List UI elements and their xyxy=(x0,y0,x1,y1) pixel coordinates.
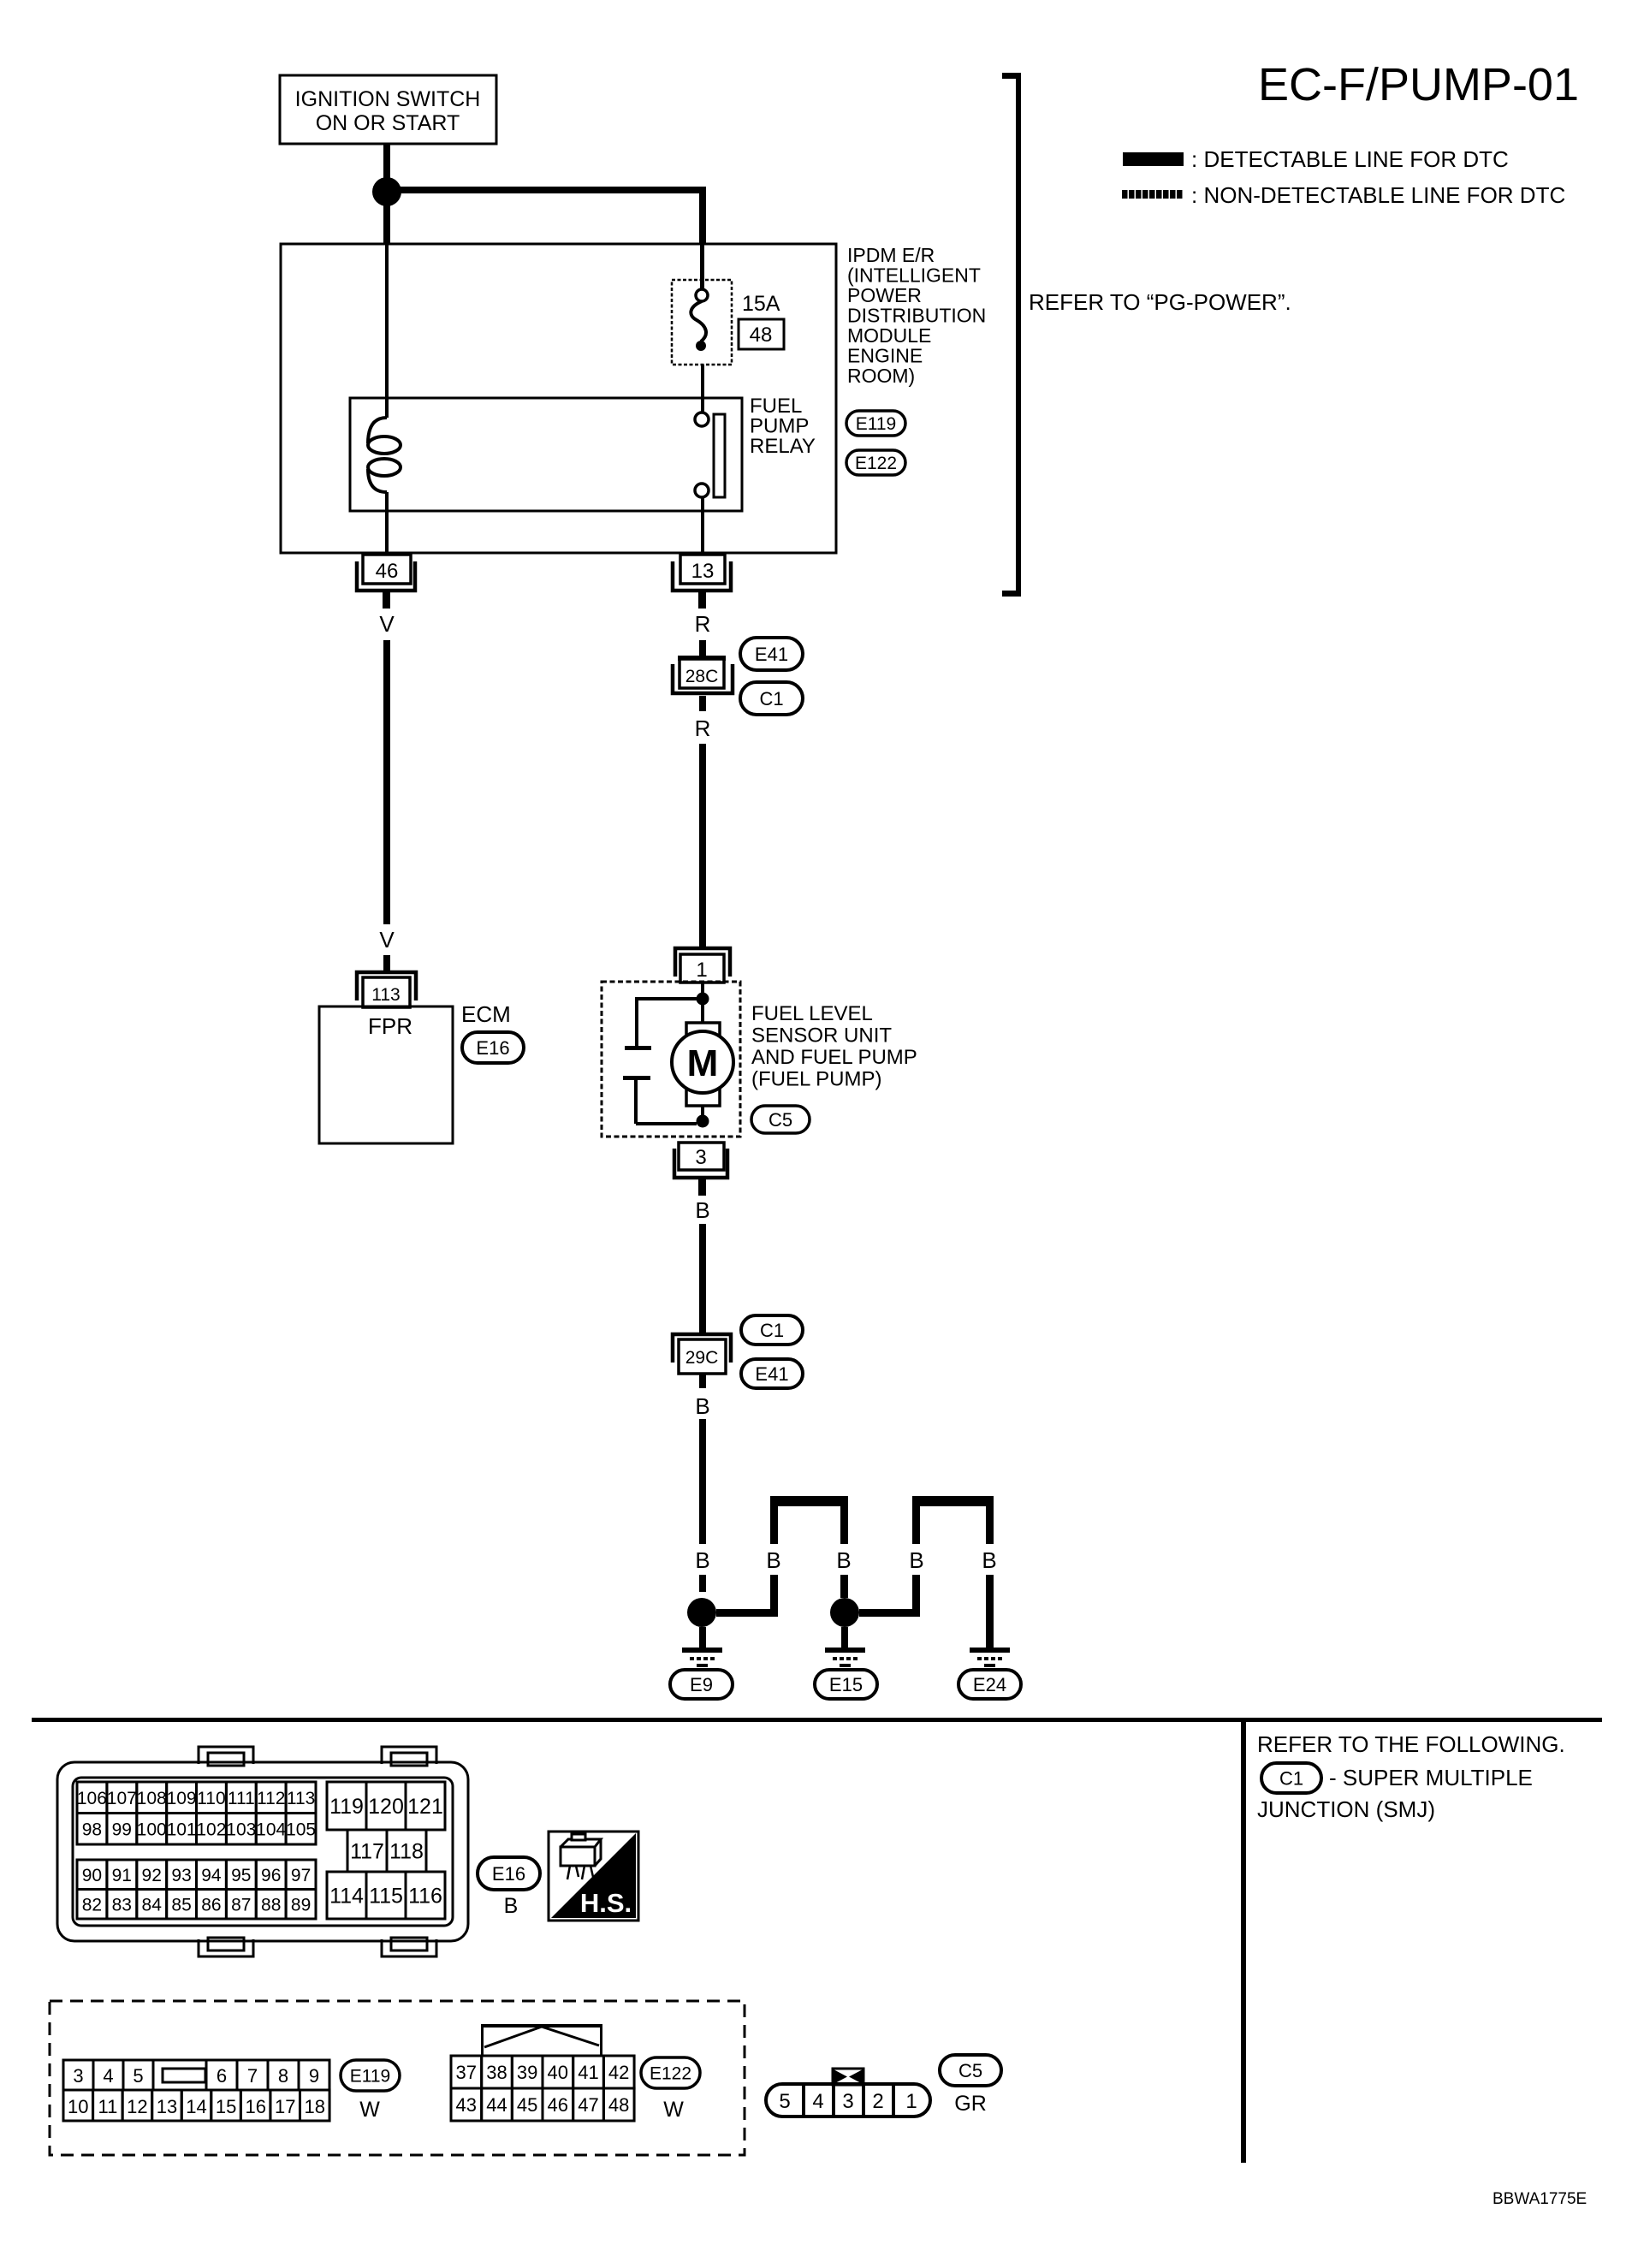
svg-text:18: 18 xyxy=(305,2096,325,2117)
svg-text:114: 114 xyxy=(329,1885,364,1909)
svg-text:103: 103 xyxy=(226,1820,256,1839)
relay coil xyxy=(368,418,401,492)
svg-text:GR: GR xyxy=(954,2092,987,2116)
svg-text:119: 119 xyxy=(329,1795,364,1819)
svg-text:B: B xyxy=(695,1547,709,1573)
svg-text:13: 13 xyxy=(691,560,715,583)
E16 pin grid right pins 117-118 xyxy=(347,1830,426,1872)
svg-text:E122: E122 xyxy=(855,454,897,473)
wire junction horizontal to right branch xyxy=(387,187,706,193)
svg-text:REFER TO “PG-POWER”.: REFER TO “PG-POWER”. xyxy=(1029,289,1291,315)
connector E122 oval xyxy=(846,450,905,475)
connector E15 oval xyxy=(815,1670,877,1699)
svg-text:E119: E119 xyxy=(350,2067,391,2087)
motor frame xyxy=(686,1023,720,1106)
svg-text:: DETECTABLE LINE FOR DTC: : DETECTABLE LINE FOR DTC xyxy=(1191,146,1509,172)
ignition switch box xyxy=(280,75,496,144)
svg-text:5: 5 xyxy=(779,2090,790,2113)
svg-text:86: 86 xyxy=(201,1895,221,1915)
svg-text:104: 104 xyxy=(256,1820,286,1839)
svg-text:C5: C5 xyxy=(958,2060,982,2081)
svg-text:1: 1 xyxy=(696,959,707,982)
svg-text:JUNCTION (SMJ): JUNCTION (SMJ) xyxy=(1257,1796,1435,1822)
svg-text:5: 5 xyxy=(133,2065,143,2087)
connector E41 oval xyxy=(740,638,803,670)
svg-text:110: 110 xyxy=(197,1789,225,1808)
svg-text:IPDM E/R: IPDM E/R xyxy=(847,244,935,266)
svg-text:15: 15 xyxy=(216,2096,236,2117)
wire loop1 right stub xyxy=(840,1575,848,1598)
svg-text:13: 13 xyxy=(157,2096,177,2117)
fuse element xyxy=(691,289,708,351)
svg-text:7: 7 xyxy=(247,2065,258,2087)
svg-text:11: 11 xyxy=(98,2096,117,2117)
svg-text:C1: C1 xyxy=(1279,1767,1303,1789)
relay contact bar xyxy=(714,414,725,497)
wire pin 46 stub xyxy=(383,592,390,609)
svg-text:MODULE: MODULE xyxy=(847,324,931,347)
svg-text:42: 42 xyxy=(608,2062,629,2083)
connector E122 oval label xyxy=(641,2057,700,2088)
svg-text:39: 39 xyxy=(517,2062,537,2083)
svg-text:W: W xyxy=(359,2098,380,2122)
svg-text:E16: E16 xyxy=(476,1037,509,1059)
wire node to motor xyxy=(701,1005,704,1023)
svg-text:44: 44 xyxy=(486,2094,507,2116)
connector E119 oval xyxy=(846,411,905,436)
svg-text:3: 3 xyxy=(695,1146,706,1169)
svg-text:100: 100 xyxy=(137,1820,167,1839)
svg-text:29C: 29C xyxy=(685,1348,719,1368)
connector E41 oval mid xyxy=(741,1359,803,1388)
E16 top tab left xyxy=(199,1747,253,1766)
connector E9 oval xyxy=(670,1670,733,1699)
svg-text:118: 118 xyxy=(389,1840,424,1864)
svg-text:116: 116 xyxy=(408,1885,442,1909)
svg-text:C1: C1 xyxy=(759,688,783,709)
svg-text:ENGINE: ENGINE xyxy=(847,345,923,367)
wire R vertical to pin 1 xyxy=(699,744,706,947)
bracket IPDM section xyxy=(1002,73,1021,597)
IPDM E/R box xyxy=(281,244,836,553)
svg-text:ON OR START: ON OR START xyxy=(316,111,460,135)
wire B long vertical xyxy=(699,1419,706,1544)
wire V stub to pin 113 xyxy=(383,955,390,971)
wire jumper E9 to loop1 xyxy=(716,1609,777,1617)
wire B vertical to 29C xyxy=(699,1224,706,1333)
svg-text:84: 84 xyxy=(142,1895,163,1915)
sensor branch left vertical upper xyxy=(635,997,638,1047)
svg-text:E119: E119 xyxy=(856,414,897,434)
svg-text:48: 48 xyxy=(608,2094,629,2116)
connector C5 keying mark xyxy=(833,2069,863,2085)
svg-text:M: M xyxy=(687,1042,719,1084)
E16 pin grid right pins 119-121 xyxy=(327,1782,445,1830)
svg-text:108: 108 xyxy=(137,1789,167,1808)
ground loop 1 xyxy=(770,1496,848,1544)
svg-text:B: B xyxy=(504,1894,519,1918)
svg-text:3: 3 xyxy=(842,2090,853,2113)
svg-text:4: 4 xyxy=(812,2090,823,2113)
wire loop2 left down xyxy=(912,1575,920,1617)
svg-text:85: 85 xyxy=(171,1895,191,1915)
svg-text:16: 16 xyxy=(245,2096,265,2117)
svg-text:R: R xyxy=(695,611,711,637)
svg-text:8: 8 xyxy=(278,2065,288,2087)
svg-text:B: B xyxy=(836,1547,851,1573)
svg-text:115: 115 xyxy=(369,1885,403,1909)
svg-text:RELAY: RELAY xyxy=(750,435,816,458)
svg-text:IGNITION SWITCH: IGNITION SWITCH xyxy=(295,87,481,111)
svg-text:113: 113 xyxy=(371,985,400,1005)
node junction dot xyxy=(372,177,401,206)
H.S. view symbol xyxy=(549,1832,638,1921)
pin 3 connector xyxy=(674,1143,727,1178)
svg-text:12: 12 xyxy=(127,2096,147,2117)
svg-text:87: 87 xyxy=(231,1895,251,1915)
fuel level sensor unit box xyxy=(602,982,740,1137)
svg-text:111: 111 xyxy=(228,1789,255,1808)
sensor plate lower xyxy=(623,1076,650,1080)
svg-text:(INTELLIGENT: (INTELLIGENT xyxy=(847,264,981,287)
ground symbol E24 xyxy=(970,1648,1010,1667)
svg-text:2: 2 xyxy=(872,2090,883,2113)
svg-text:102: 102 xyxy=(196,1820,226,1839)
svg-text:48: 48 xyxy=(750,324,773,347)
E16 pin grid right pins 114-116 xyxy=(327,1872,445,1919)
svg-text:99: 99 xyxy=(112,1820,132,1839)
wire IPDM top to fuse xyxy=(700,244,704,289)
connector 28C SMJ xyxy=(673,656,733,693)
connector E24 oval xyxy=(958,1670,1021,1699)
connector C1 oval mid xyxy=(741,1315,803,1345)
wire E9 node to ground xyxy=(699,1627,706,1648)
svg-text:10: 10 xyxy=(68,2096,88,2117)
label FUEL PUMP RELAY xyxy=(750,395,816,458)
pin 13 connector xyxy=(673,555,731,591)
relay contact top xyxy=(695,413,709,426)
E16 pin grid lower-left pins 90-97 82-89 xyxy=(77,1860,316,1919)
wire ignition switch to junction xyxy=(383,144,390,180)
svg-text:46: 46 xyxy=(376,560,399,583)
connector C1 oval xyxy=(740,682,803,715)
wire jumper E15 to loop2 xyxy=(859,1609,920,1617)
sensor plate upper xyxy=(625,1046,651,1050)
svg-text:(FUEL PUMP): (FUEL PUMP) xyxy=(751,1068,881,1091)
svg-text:17: 17 xyxy=(275,2096,295,2117)
svg-text:AND FUEL PUMP: AND FUEL PUMP xyxy=(751,1046,917,1069)
svg-text:E9: E9 xyxy=(690,1674,713,1695)
svg-text:97: 97 xyxy=(291,1866,311,1885)
svg-text:B: B xyxy=(909,1547,923,1573)
connector E119 oval label xyxy=(341,2060,400,2091)
svg-text:C1: C1 xyxy=(760,1320,784,1341)
wire pin 3 stub xyxy=(698,1179,706,1196)
wire 29C stub down xyxy=(699,1374,706,1388)
H.S. connector icon xyxy=(561,1834,601,1879)
svg-text:40: 40 xyxy=(548,2062,568,2083)
svg-text:15A: 15A xyxy=(742,292,780,316)
wire pin 13 stub xyxy=(698,592,706,609)
svg-text:14: 14 xyxy=(186,2096,206,2117)
pin 113 connector xyxy=(357,972,416,1007)
ECM box xyxy=(319,1006,453,1143)
svg-text:105: 105 xyxy=(286,1820,316,1839)
connector E122 pin grid xyxy=(451,2056,634,2121)
svg-text:BBWA1775E: BBWA1775E xyxy=(1493,2190,1587,2208)
svg-text:1: 1 xyxy=(905,2090,917,2113)
wire E15 node to ground xyxy=(841,1627,848,1648)
svg-text:47: 47 xyxy=(578,2094,598,2116)
svg-text:98: 98 xyxy=(82,1820,102,1839)
svg-text:FPR: FPR xyxy=(368,1013,412,1039)
svg-text:B: B xyxy=(982,1547,996,1573)
svg-text:89: 89 xyxy=(291,1895,311,1915)
label IPDM E/R xyxy=(847,244,986,387)
svg-text:3: 3 xyxy=(73,2065,83,2087)
svg-text:28C: 28C xyxy=(685,667,719,686)
svg-text:90: 90 xyxy=(82,1866,102,1885)
relay contact bottom xyxy=(695,484,709,497)
svg-text:41: 41 xyxy=(578,2062,598,2083)
svg-text:REFER TO THE FOLLOWING.: REFER TO THE FOLLOWING. xyxy=(1257,1731,1565,1757)
pin 46 connector xyxy=(357,555,415,591)
node ground junction E9 xyxy=(687,1598,716,1627)
svg-text:88: 88 xyxy=(261,1895,281,1915)
connector E16 oval at ECM xyxy=(462,1032,524,1063)
svg-text:112: 112 xyxy=(257,1789,285,1808)
svg-text:4: 4 xyxy=(103,2065,113,2087)
svg-text:E24: E24 xyxy=(973,1674,1006,1695)
svg-text:DISTRIBUTION: DISTRIBUTION xyxy=(847,305,986,327)
connector E122 roof xyxy=(481,2024,602,2056)
svg-text:46: 46 xyxy=(548,2094,568,2116)
motor M circle xyxy=(672,1031,733,1093)
wire relay coil to pin 46 xyxy=(385,492,389,553)
node fuel pump top xyxy=(697,993,709,1006)
svg-text:E41: E41 xyxy=(755,644,788,665)
svg-text:V: V xyxy=(379,611,395,637)
legend non-detectable line swatch xyxy=(1122,190,1184,199)
connector E16 oval label xyxy=(478,1857,540,1890)
svg-text:W: W xyxy=(663,2098,684,2122)
ground loop 2 xyxy=(912,1496,994,1544)
svg-text:R: R xyxy=(695,715,711,741)
sensor branch left vertical lower xyxy=(634,1080,638,1124)
svg-text:H.S.: H.S. xyxy=(580,1888,632,1918)
E16 bottom tab right xyxy=(382,1938,436,1956)
E16 pin grid upper-left pins 106-113 98-105 xyxy=(77,1782,316,1844)
wire V vertical xyxy=(383,640,390,924)
svg-text:91: 91 xyxy=(112,1866,132,1885)
connector C5 strip xyxy=(766,2084,930,2117)
svg-text:ECM: ECM xyxy=(461,1001,511,1027)
wire 28C stub down xyxy=(699,696,706,711)
ECM connector E16 body xyxy=(57,1762,468,1941)
separator line xyxy=(32,1718,1602,1722)
pin 1 connector xyxy=(675,948,730,983)
svg-text:- SUPER MULTIPLE: - SUPER MULTIPLE xyxy=(1329,1765,1533,1790)
ground symbol E9 xyxy=(682,1648,722,1667)
svg-text:101: 101 xyxy=(167,1820,197,1839)
svg-text:95: 95 xyxy=(231,1866,251,1885)
E16 bottom tab left xyxy=(199,1938,253,1956)
svg-text:ROOM): ROOM) xyxy=(847,365,915,387)
svg-text:43: 43 xyxy=(456,2094,477,2116)
svg-text:121: 121 xyxy=(407,1795,443,1819)
wire IPDM top to relay coil xyxy=(385,244,389,418)
svg-text:113: 113 xyxy=(287,1789,315,1808)
wire B stub above E9 node xyxy=(699,1575,706,1592)
wire motor to lower node xyxy=(701,1106,704,1116)
legend detectable line swatch xyxy=(1123,152,1184,166)
svg-text:107: 107 xyxy=(107,1789,137,1808)
wire right branch vertical to IPDM xyxy=(699,193,706,244)
sensor branch top wire xyxy=(637,997,697,1000)
svg-text:82: 82 xyxy=(82,1895,102,1915)
svg-text:EC-F/PUMP-01: EC-F/PUMP-01 xyxy=(1258,59,1579,110)
ground symbol E15 xyxy=(825,1648,865,1667)
svg-text:92: 92 xyxy=(142,1866,162,1885)
connector C5 oval label xyxy=(940,2055,1001,2086)
wire R stub to 28C xyxy=(699,640,706,656)
fuse 15A box xyxy=(672,280,732,365)
node ground junction E15 xyxy=(830,1598,859,1627)
svg-text:37: 37 xyxy=(456,2062,477,2083)
svg-text:93: 93 xyxy=(171,1866,191,1885)
svg-text:E122: E122 xyxy=(650,2064,691,2084)
connector 29C SMJ xyxy=(673,1334,731,1374)
fuse number 48 box xyxy=(739,319,784,349)
svg-text:E41: E41 xyxy=(755,1363,788,1385)
svg-text:120: 120 xyxy=(368,1795,404,1819)
svg-text:6: 6 xyxy=(217,2065,227,2087)
svg-text:38: 38 xyxy=(486,2062,507,2083)
connector E119 pin grid xyxy=(63,2060,329,2121)
svg-text:E16: E16 xyxy=(492,1863,525,1885)
svg-text:106: 106 xyxy=(77,1789,107,1808)
connector C5 oval xyxy=(751,1106,810,1133)
svg-text:C5: C5 xyxy=(769,1109,792,1131)
svg-text:FUEL LEVEL: FUEL LEVEL xyxy=(751,1002,873,1025)
svg-text:96: 96 xyxy=(261,1866,281,1885)
wire junction down to IPDM xyxy=(383,204,390,244)
svg-text:B: B xyxy=(695,1393,709,1419)
fuel pump relay box xyxy=(350,398,742,511)
svg-text:109: 109 xyxy=(167,1789,197,1808)
svg-text:SENSOR UNIT: SENSOR UNIT xyxy=(751,1024,892,1048)
svg-text:B: B xyxy=(695,1197,709,1223)
connector C1 oval legend xyxy=(1261,1763,1321,1793)
svg-text:45: 45 xyxy=(517,2094,537,2116)
node fuel pump bottom xyxy=(697,1115,709,1128)
wire pin1 to node xyxy=(701,983,704,993)
svg-text:: NON-DETECTABLE LINE FOR DTC: : NON-DETECTABLE LINE FOR DTC xyxy=(1191,182,1565,208)
wire loop1 left down xyxy=(770,1575,778,1617)
svg-text:117: 117 xyxy=(350,1840,384,1864)
svg-text:V: V xyxy=(379,927,395,953)
svg-text:94: 94 xyxy=(201,1866,222,1885)
svg-text:E15: E15 xyxy=(829,1674,863,1695)
separator vertical line xyxy=(1241,1722,1246,2163)
wire relay contact to pin 13 xyxy=(701,497,704,553)
E16 top tab right xyxy=(382,1747,436,1766)
sensor branch bottom wire xyxy=(636,1122,697,1125)
svg-text:9: 9 xyxy=(309,2065,319,2087)
wire fuse to relay contact xyxy=(701,365,704,414)
svg-text:B: B xyxy=(766,1547,780,1573)
svg-text:83: 83 xyxy=(112,1895,132,1915)
dashed harness box xyxy=(50,2001,745,2155)
wire loop2 right to ground xyxy=(986,1575,994,1648)
label FUEL LEVEL SENSOR UNIT AND FUEL PUMP xyxy=(751,1002,917,1091)
svg-text:POWER: POWER xyxy=(847,284,922,306)
